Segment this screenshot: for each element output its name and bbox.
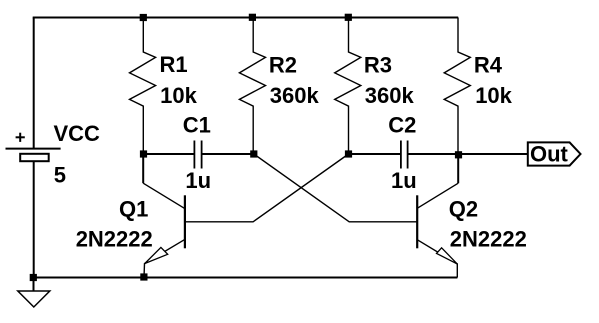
plus sign of battery [16,133,25,142]
svg-text:Q1: Q1 [119,197,148,222]
wire C2 right plate to node D [408,153,458,155]
resistor R1 [130,18,156,155]
svg-text:1u: 1u [391,168,417,193]
junction bottom rail ground [30,274,37,281]
svg-text:R3: R3 [364,52,392,77]
resistor R3 [335,18,361,155]
wire bottom rail ground net [33,277,457,279]
ground symbol [18,291,50,307]
svg-text:360k: 360k [270,83,320,108]
wire node A row: R1 bottom to C1 left plate [143,153,193,155]
svg-text:C2: C2 [388,113,416,138]
transistor Q1 2N2222 [143,183,185,277]
wire left vertical from top rail to battery plus [33,18,35,149]
resistor R4 [444,18,470,155]
svg-text:360k: 360k [365,83,415,108]
svg-text:1u: 1u [185,168,211,193]
wire Q2 collector vertical [457,154,459,183]
svg-text:2N2222: 2N2222 [76,227,153,252]
svg-text:R2: R2 [269,52,297,77]
wire C1 right plate to node B [202,153,253,155]
resistor R2 [239,18,265,155]
svg-text:Out: Out [530,142,569,167]
junction top rail R3 [345,14,352,21]
capacitor C2 [401,141,408,169]
battery V1 VCC symbol [6,149,61,162]
junction node D [455,151,462,158]
svg-text:C1: C1 [183,113,211,138]
svg-text:10k: 10k [475,83,512,108]
wire node C row: R3 bottom to C2 left plate [349,153,401,155]
svg-text:10k: 10k [160,83,197,108]
wire Q1 collector vertical [142,154,144,183]
svg-text:2N2222: 2N2222 [450,227,527,252]
svg-text:VCC: VCC [54,121,101,146]
svg-text:R1: R1 [160,52,188,77]
svg-text:R4: R4 [474,52,503,77]
junction top rail R1 [140,14,147,21]
capacitor C1 [194,141,201,169]
wire node D to Out flag [458,153,528,155]
wire battery minus to bottom rail [33,161,35,277]
junction node A [140,150,147,157]
svg-text:Q2: Q2 [449,197,478,222]
Out port flag [528,142,581,165]
junction node C [345,150,352,157]
wire top rail VCC net [33,17,459,19]
wire ground stub [33,278,35,292]
wire cross-coupling node B to Q2 base [254,154,417,222]
junction top rail R2 [249,14,256,21]
junction node B [250,150,257,157]
junction bottom rail Q1 emitter [140,273,147,280]
wire cross-coupling node C to Q1 base [184,154,348,222]
transistor Q2 2N2222 [417,183,458,277]
svg-text:5: 5 [54,162,66,187]
